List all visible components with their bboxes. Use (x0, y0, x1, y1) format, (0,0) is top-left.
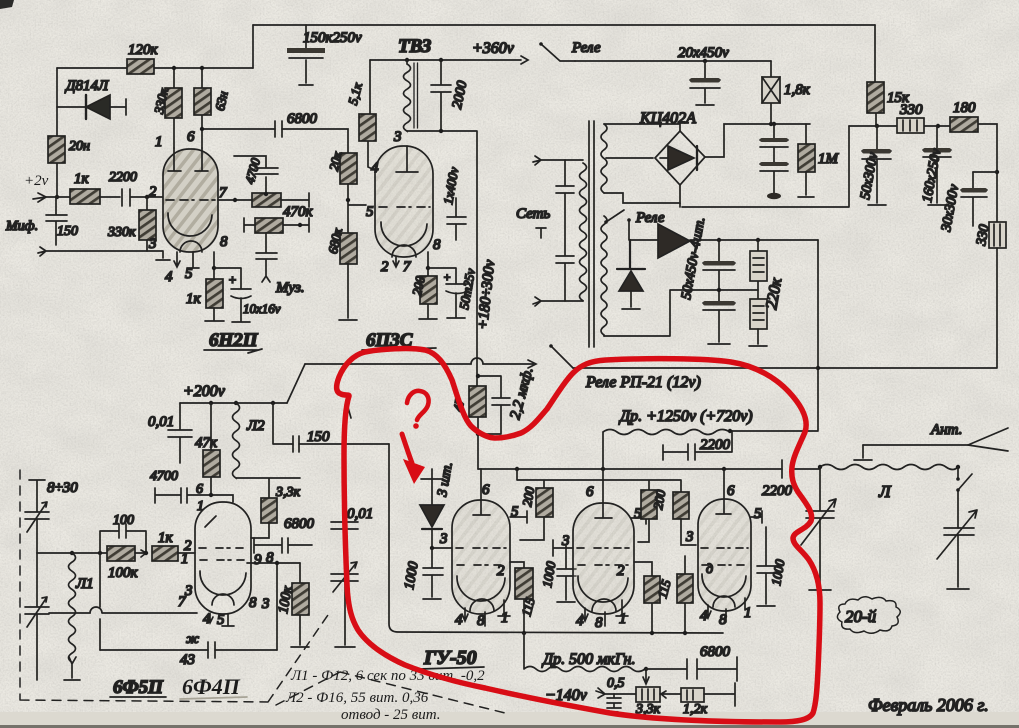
svg-text:Л: Л (878, 482, 892, 501)
svg-text:ТВЗ: ТВЗ (398, 36, 432, 57)
svg-text:3,3к: 3,3к (275, 485, 301, 500)
wire: lower input row (38, 247, 170, 260)
capacitor 50x25v (428, 267, 478, 318)
svg-text:100к: 100к (108, 565, 139, 581)
wire: 6800 coupling row y129 (202, 129, 348, 153)
power transformer core (589, 121, 594, 347)
transformer ТВЗ (398, 36, 432, 131)
capacitor 1х400v (440, 166, 466, 240)
variable capacitor 8÷30 (25, 480, 78, 553)
svg-text:отвод - 25 вит.: отвод - 25 вит. (341, 707, 441, 723)
resistor 330 right edge (974, 222, 1006, 248)
capacitor 6800 bias filter (646, 644, 737, 681)
svg-text:1М: 1М (818, 151, 840, 167)
switch antenna (956, 467, 972, 528)
svg-text:6800: 6800 (287, 111, 318, 127)
svg-text:3: 3 (261, 596, 270, 612)
svg-text:5: 5 (754, 506, 762, 522)
node junction (522, 631, 526, 635)
svg-text:+200v: +200v (183, 383, 226, 400)
wire: Л2 to 150 cap row (273, 403, 389, 444)
capacitor mains filter (516, 160, 574, 301)
wire: pin7 row (218, 193, 309, 207)
svg-text:Реле: Реле (571, 40, 601, 56)
tube ГУ-50 second (553, 469, 646, 631)
capacitor 50x300v (858, 126, 891, 205)
transformer HV secondary (601, 124, 607, 193)
svg-text:2: 2 (617, 563, 625, 579)
svg-text:6Ф4П: 6Ф4П (182, 674, 241, 699)
svg-text:КЦ402А: КЦ402А (639, 110, 696, 127)
svg-text:3: 3 (439, 531, 448, 547)
node junction (413, 423, 419, 429)
svg-text:8: 8 (220, 234, 228, 250)
capacitor 20x450v (678, 45, 729, 105)
capacitor 0,01 (148, 403, 192, 463)
resistor 5,1к (345, 60, 377, 171)
svg-text:4: 4 (371, 160, 379, 176)
tube 6Ф5П (178, 502, 274, 628)
svg-text:8: 8 (249, 595, 257, 611)
svg-text:47к: 47к (195, 435, 218, 451)
capacitor 150 mic (5, 197, 78, 245)
svg-text:+2v: +2v (24, 173, 49, 189)
wire: tank top row (37, 552, 107, 554)
svg-text:6: 6 (187, 129, 195, 145)
svg-text:8: 8 (477, 613, 485, 629)
wire: cathode pin8 (213, 252, 215, 279)
resistor 330к grid (107, 195, 156, 251)
node junction (346, 198, 350, 202)
resistor 220к upper (750, 240, 767, 299)
diode relay rectifier (617, 240, 645, 309)
resistor 47 dropper (450, 386, 486, 417)
wire: tank left vertical (99, 553, 101, 650)
relay Реле triangle (658, 224, 690, 258)
wire: pin9 feedback (247, 563, 300, 650)
resistor 20к (326, 149, 357, 184)
svg-text:330к: 330к (107, 225, 136, 240)
node junction (200, 127, 204, 131)
node junction (816, 366, 820, 370)
inductor Л antenna (818, 465, 960, 502)
node junction (275, 561, 279, 565)
capacitor 43 (180, 632, 215, 668)
tube 6П3С (366, 129, 441, 275)
node junction (936, 124, 940, 128)
svg-text:150к250v: 150к250v (303, 30, 362, 46)
svg-text:20x450v: 20x450v (678, 45, 729, 61)
wire: antenna lead (863, 444, 968, 446)
svg-text:ж: ж (186, 632, 199, 647)
wire: anode rail y469 (478, 468, 782, 470)
svg-text:2200: 2200 (700, 437, 731, 453)
coil winding notes (285, 668, 485, 723)
capacitor 30x300v (939, 172, 997, 234)
svg-text:Л2 - Ф16, 55 вит. 0,36: Л2 - Ф16, 55 вит. 0,36 (285, 690, 429, 706)
svg-text:3: 3 (685, 529, 694, 545)
svg-text:6: 6 (482, 482, 490, 498)
svg-text:Реле: Реле (635, 210, 665, 226)
label 6Н2П (204, 330, 262, 353)
resistor 200 screen 2 (638, 488, 668, 542)
wire: right side loop (818, 240, 997, 430)
resistor 1,8к fusible (762, 61, 811, 124)
resistor 680к (325, 226, 357, 320)
capacitor 4700 (234, 156, 278, 196)
red question mark (407, 391, 429, 420)
svg-text:2200: 2200 (109, 170, 137, 185)
capacitor 2200 input (109, 170, 163, 206)
label 6Ф4П ghost (180, 674, 247, 699)
choke Др +1250v (603, 408, 818, 469)
resistor 1к grid (152, 530, 195, 561)
wire: long top rail to PSU (253, 24, 875, 26)
switch Реле anode supply (541, 44, 575, 61)
svg-text:2: 2 (381, 259, 389, 275)
svg-text:6Н2П: 6Н2П (209, 330, 259, 351)
wire: top-left supply row y68 (57, 67, 253, 69)
capacitor 150к250v (287, 25, 362, 85)
svg-text:ГУ-50: ГУ-50 (423, 647, 477, 669)
switch lever relay contact (551, 346, 573, 368)
capacitor 160x250v (920, 126, 951, 205)
resistor 47к (195, 403, 220, 495)
diode Д814Л (57, 78, 126, 119)
svg-text:Реле РП-21 (12v): Реле РП-21 (12v) (585, 374, 701, 391)
svg-text:2: 2 (497, 563, 505, 579)
svg-text:150: 150 (307, 429, 330, 445)
capacitor to Муз output (256, 233, 305, 296)
capacitor 50x450v-4шт (679, 216, 735, 344)
svg-text:1к: 1к (186, 291, 202, 307)
capacitor 6800 anode (254, 516, 315, 553)
wire: B+ into output rail (477, 417, 479, 469)
svg-text:8: 8 (433, 237, 441, 253)
svg-text:20-й: 20-й (845, 607, 877, 626)
label 6Ф5П (110, 677, 166, 698)
svg-text:Миф.: Миф. (5, 219, 38, 234)
label 6П3С (362, 330, 436, 351)
transformer primary winding (580, 163, 587, 301)
svg-text:Др. +1250v (+720v): Др. +1250v (+720v) (618, 408, 753, 425)
resistor 1к cathode (186, 279, 224, 321)
wire: to 20x450v node (575, 60, 771, 62)
node junction (439, 129, 443, 133)
svg-text:4: 4 (165, 269, 173, 285)
shield box dashed (20, 470, 505, 713)
svg-text:1,8к: 1,8к (784, 82, 811, 98)
capacitor 6800 coupling (275, 111, 318, 137)
transformer relay secondary (601, 216, 607, 336)
svg-text:120к: 120к (128, 42, 159, 58)
resistor 115 cathode 3 (677, 556, 693, 633)
svg-text:10x16v: 10x16v (243, 301, 281, 316)
wire: riser to top rail (252, 25, 254, 68)
red annotation loop (337, 349, 820, 722)
capacitor 1000 cathode 3 (757, 527, 788, 606)
svg-text:+: + (443, 270, 451, 284)
resistor 470к upper (252, 193, 314, 220)
variable capacitor tank left (801, 467, 836, 590)
node junction (717, 238, 721, 242)
capacitor 150 coupling (293, 429, 330, 452)
svg-text:330: 330 (899, 102, 923, 118)
resistor 180 (950, 100, 978, 132)
wire: +200v rail (180, 402, 287, 404)
wire: bridge + output (705, 124, 810, 157)
svg-text:3: 3 (561, 533, 570, 549)
svg-text:+: + (228, 272, 237, 287)
variable capacitor tank right (937, 510, 977, 589)
svg-text:100: 100 (113, 513, 134, 528)
svg-text:Сеть: Сеть (516, 206, 550, 222)
svg-text:6: 6 (727, 483, 735, 499)
capacitor 0,5 (607, 676, 625, 712)
svg-text:1к: 1к (74, 171, 90, 187)
svg-text:6800: 6800 (700, 644, 731, 660)
node junction (601, 467, 605, 471)
wire: +360v row (370, 56, 528, 64)
resistor 15к (867, 25, 910, 126)
node junction (405, 58, 409, 62)
mains input lower with arrow (533, 297, 583, 306)
wire: grid row y613 (49, 607, 197, 613)
svg-text:2200: 2200 (762, 483, 793, 499)
wire: bottom return y650 (100, 649, 277, 651)
resistor 115 cathode 2 (634, 562, 674, 633)
svg-text:Февраль 2006 г.: Февраль 2006 г. (868, 695, 989, 715)
svg-text:20н: 20н (69, 139, 90, 154)
wire: left input vertical (56, 68, 58, 197)
bridge rectifier КЦ402А (639, 110, 705, 185)
capacitor 2200 feedback (663, 431, 732, 460)
resistor 330 (897, 102, 924, 133)
capacitor 1000 bias (402, 548, 443, 599)
node junction (769, 122, 773, 126)
resistor 330к anode (151, 66, 182, 148)
svg-text:43: 43 (180, 652, 195, 668)
svg-text:0,5: 0,5 (607, 676, 625, 691)
wire: HV mid tap to bridge (606, 157, 653, 159)
svg-text:Др. 500 мкГн.: Др. 500 мкГн. (541, 651, 635, 668)
wire: screen rail y480 (517, 469, 681, 492)
wire: switched B+ row y364 with hop (305, 358, 536, 368)
wire: mic input arrow (33, 193, 46, 202)
svg-text:2: 2 (149, 184, 157, 200)
wire: -140v feed (643, 669, 649, 684)
svg-text:150: 150 (57, 224, 78, 239)
svg-text:8÷30: 8÷30 (47, 480, 78, 496)
svg-text:+360v: +360v (472, 40, 515, 57)
wire: B+ feed down right side (407, 131, 477, 386)
diode 3шт bias (420, 461, 456, 550)
resistor 20н (48, 136, 90, 163)
antenna Ант (930, 422, 1008, 451)
svg-text:6: 6 (586, 484, 594, 500)
tube ГУ-50 third (685, 469, 762, 628)
svg-text:5: 5 (366, 204, 374, 220)
node: input row junction (55, 195, 59, 199)
svg-text:6800: 6800 (284, 516, 315, 532)
wire: shield stub (347, 404, 351, 418)
svg-text:8: 8 (595, 615, 603, 631)
capacitor 2200 antenna feed (762, 460, 820, 499)
inductor Л1 (64, 553, 94, 680)
wire: caps mid tap (604, 290, 758, 336)
tube ГУ-50 first (452, 469, 527, 629)
wire: HV bottom tap to bridge (604, 185, 680, 203)
callout 20-й (837, 597, 900, 634)
resistor 1к input (46, 171, 120, 204)
resistor 200 cathode 6П3С (409, 252, 437, 319)
capacitor 0,01 agc (331, 506, 373, 574)
capacitor 2,2мкф (476, 366, 537, 437)
svg-text:9: 9 (254, 552, 262, 568)
tube 6Н2П (148, 129, 228, 285)
svg-text:Ант.: Ант. (930, 422, 962, 438)
svg-text:Д814Л: Д814Л (64, 78, 109, 94)
svg-text:Л2: Л2 (246, 418, 265, 434)
capacitor filter pair (760, 124, 788, 199)
resistor 115 cathode 1 (510, 562, 538, 633)
svg-text:3: 3 (393, 129, 402, 145)
inductor Л2 (233, 403, 266, 478)
resistor 120к (127, 42, 159, 74)
label ГУ-50 (420, 647, 484, 669)
wire: HV top to bridge (604, 124, 680, 131)
svg-text:д: д (706, 562, 713, 577)
wire: grid node 6П3С (348, 184, 366, 233)
scanner corner mark (0, 0, 14, 9)
node: B+ filter (875, 124, 879, 128)
capacitor 4700 grid (150, 469, 233, 514)
resistor 220к lower (749, 276, 785, 346)
svg-text:6: 6 (196, 482, 203, 497)
mains input upper with arrow (533, 156, 583, 165)
antenna coupling bar (854, 445, 872, 460)
resistor 100к screen (276, 563, 309, 647)
red arrow (402, 434, 412, 463)
svg-text:0,01: 0,01 (347, 506, 373, 522)
node junction (209, 401, 213, 405)
svg-text:180: 180 (953, 100, 976, 116)
node junction (233, 198, 237, 202)
svg-text:0,01: 0,01 (148, 414, 174, 430)
resistor 100к grid (107, 546, 146, 581)
wire: +200v feed diagonal (287, 364, 305, 403)
resistor 3,3к (251, 485, 301, 538)
choke Др 500мкГн (524, 633, 648, 672)
resistor 1М (798, 124, 840, 197)
svg-text:6Ф5П: 6Ф5П (113, 677, 164, 698)
resistor 3,3к bias (635, 687, 661, 717)
svg-text:3: 3 (148, 236, 157, 252)
variable capacitor lower tank (25, 553, 49, 680)
svg-text:Л1: Л1 (75, 576, 94, 592)
svg-text:1,2к: 1,2к (683, 702, 708, 717)
wire: anode tap row (236, 478, 300, 498)
svg-text:Муз.: Муз. (275, 280, 305, 296)
capacitor 1000 cathode 1 (539, 546, 576, 602)
resistor 63н anode (194, 66, 231, 148)
node junction (717, 288, 721, 292)
wire: return rail to bridge (680, 126, 849, 207)
resistor 200 screen 3 (673, 492, 696, 545)
wire: relay row y240 (629, 220, 818, 240)
resistor 1,2к bias (660, 683, 735, 717)
resistor 200 screen 1 (519, 485, 553, 540)
wire: switched rail to right loop (573, 367, 818, 369)
capacitor 2000 (431, 60, 471, 131)
capacitor 10x16v (214, 268, 281, 322)
svg-text:4700: 4700 (150, 469, 178, 484)
resistor 470к lower (244, 218, 309, 233)
variable capacitor padder (331, 562, 358, 647)
svg-text:1к: 1к (158, 530, 174, 546)
svg-text:1: 1 (155, 134, 163, 150)
wire: cathode bottom rail (389, 444, 723, 633)
switch relay contact (606, 210, 624, 222)
capacitor 100 bypass (100, 513, 148, 555)
wire: filter row y126 (849, 124, 997, 222)
